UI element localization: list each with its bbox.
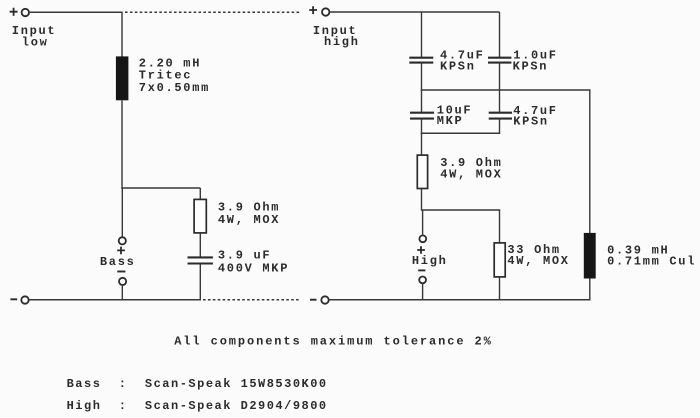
terminal minus sign: bottom left - (10, 298, 17, 300)
wire: vertical from top node down to inductor L1 (121, 12, 123, 57)
svg-text:400V MKP: 400V MKP (218, 261, 289, 275)
wire: vertical from top rail to C3 (499, 12, 501, 58)
terminal plus sign: Input high + (309, 6, 317, 14)
wire: vertical Bass - to bottom rail (121, 285, 123, 300)
svg-text:MKP: MKP (437, 114, 464, 128)
terminal circle: Bass - (119, 278, 126, 285)
wire: vertical from high rail down to R3 (499, 210, 501, 244)
wire: vertical middle rail down to inductor L2 (589, 90, 591, 234)
wire: middle horizontal rail to inductor branch (421, 89, 591, 91)
wire: bottom right rail (329, 299, 591, 301)
wire: vertical C4 bottom to lower rail (421, 119, 423, 134)
wire: vertical C5 bottom to lower rail (499, 119, 501, 134)
svg-text:High: High (412, 254, 448, 268)
resistor R3 33 Ohm (494, 243, 505, 277)
plus sign: High + (417, 246, 425, 254)
svg-text:low: low (22, 35, 49, 49)
svg-text:All components maximum toleran: All components maximum tolerance 2% (174, 334, 493, 348)
wire: dotted top link between low and high sections (125, 11, 301, 13)
terminal plus sign: Input low + (10, 8, 18, 16)
inductor L2 0.39 mH (black body) (584, 233, 596, 279)
capacitor C4 10uF MKP plates (410, 113, 434, 119)
wire: vertical C2 bottom to middle rail (421, 63, 423, 91)
svg-text:4W, MOX: 4W, MOX (440, 168, 502, 182)
inductor L1 2.20 mH (black body) (116, 56, 128, 100)
capacitor C1 3.9 uF plates (188, 257, 213, 263)
capacitor C3 1.0uF KPSn plates (488, 58, 511, 63)
svg-text:KPSn: KPSn (513, 59, 549, 73)
capacitor C2 4.7uF KPSn plates (409, 58, 433, 63)
wire: vertical C3 bottom to middle rail (499, 63, 501, 91)
svg-text:0.71mm Cul: 0.71mm Cul (607, 255, 696, 269)
wire: lower horizontal rail joining C4 C5 (421, 132, 500, 134)
wire: vertical from R2 to high node (421, 189, 423, 211)
wire: top right horizontal rail (330, 11, 500, 13)
terminal circle: Input high + (322, 8, 329, 15)
terminal circle: bottom right - (321, 296, 328, 303)
wire: vertical stub into resistor R1 (199, 188, 201, 200)
terminal circle: Bass + (119, 237, 126, 244)
wire: vertical R3 bottom to bottom rail (499, 277, 501, 301)
svg-text:4W, MOX: 4W, MOX (507, 254, 569, 268)
svg-text:4W, MOX: 4W, MOX (218, 213, 280, 227)
wire: vertical middle rail to C4 (421, 90, 423, 113)
minus sign: Bass - (117, 271, 125, 273)
resistor R1 3.9 Ohm (left) (194, 199, 206, 233)
terminal minus sign: bottom right - (310, 299, 317, 301)
wire: vertical into resistor R2 (421, 133, 423, 156)
wire: vertical High - to bottom rail (422, 283, 424, 300)
svg-text:KPSn: KPSn (440, 59, 476, 73)
wire: vertical from L1 down to bass node (121, 100, 123, 189)
wire: top left horizontal from Input low + to node (29, 11, 122, 13)
wire: dotted bottom link between sections (203, 299, 299, 301)
wire: vertical L2 bottom to bottom rail (589, 279, 591, 301)
plus sign: Bass + (117, 247, 125, 255)
resistor R2 3.9 Ohm (right) (417, 155, 427, 188)
wire: horizontal bass node to RC branch (121, 187, 200, 189)
wire: vertical middle rail to C5 (499, 90, 501, 113)
wire: vertical from C1 to bottom rail (199, 265, 201, 301)
capacitor C5 4.7uF KPSn plates (489, 113, 512, 119)
terminal circle: High - (419, 277, 426, 284)
svg-text:Bass : Scan-Speak 15W8530K00: Bass : Scan-Speak 15W8530K00 (67, 377, 328, 391)
wire: bottom left rail (29, 299, 201, 301)
svg-text:High : Scan-Speak D2904/9800: High : Scan-Speak D2904/9800 (67, 399, 328, 413)
wire: horizontal high node rail (422, 209, 501, 211)
wire: vertical bass node down to Bass terminal (121, 188, 123, 237)
terminal circle: Input low + (22, 9, 29, 16)
svg-text:KPSn: KPSn (513, 115, 549, 129)
wire: vertical high node down to High terminal (422, 210, 424, 235)
svg-text:high: high (324, 35, 360, 49)
terminal circle: High + (419, 235, 426, 242)
terminal circle: bottom left - (21, 296, 28, 303)
wire: vertical from R1 to capacitor C1 (199, 233, 201, 257)
svg-text:Bass: Bass (100, 255, 136, 269)
minus sign: High - (418, 269, 425, 271)
svg-text:7x0.50mm: 7x0.50mm (139, 81, 210, 95)
svg-text:3.9 uF: 3.9 uF (218, 248, 271, 262)
wire: vertical from top rail to C2 (421, 12, 423, 58)
